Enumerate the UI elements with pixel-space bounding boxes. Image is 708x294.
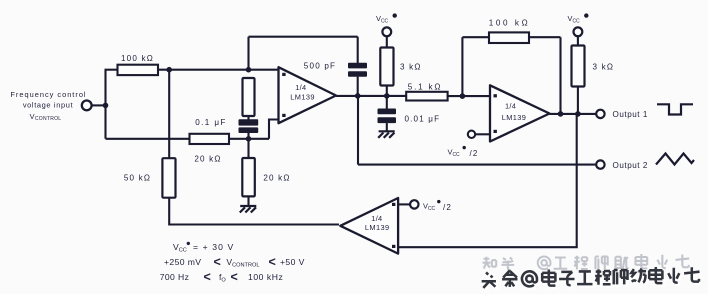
svg-text:500 pF: 500 pF xyxy=(304,62,336,71)
wire step up to U1 lower input xyxy=(269,120,279,139)
op-amp U3 1/4 LM139 xyxy=(340,198,398,254)
resistor 20 k (horizontal) xyxy=(190,134,230,144)
square wave icon xyxy=(657,104,693,114)
svg-text:20 kΩ: 20 kΩ xyxy=(194,155,221,164)
note 700Hz to 100kHz xyxy=(160,270,284,284)
junction node C xyxy=(246,67,252,73)
wire 5.1k to U2 xyxy=(448,95,490,97)
svg-text:LM139: LM139 xyxy=(365,223,390,232)
svg-text:+50 V: +50 V xyxy=(280,257,305,267)
wire feedback top xyxy=(249,36,358,38)
resistor vertical (ramp) xyxy=(243,78,255,116)
ground (below 20k) xyxy=(240,206,256,213)
svg-text:5.1 kΩ: 5.1 kΩ xyxy=(408,83,442,92)
wire feedback right drop xyxy=(357,37,359,64)
svg-text:Output 1: Output 1 xyxy=(613,110,648,119)
svg-text:= + 30 V: = + 30 V xyxy=(193,242,234,252)
junction output1 pullup node xyxy=(575,111,581,117)
svg-text:1/4: 1/4 xyxy=(295,83,306,92)
terminal output 2 xyxy=(596,160,604,168)
svg-text:3 kΩ: 3 kΩ xyxy=(593,63,615,72)
note 250mV to 50V xyxy=(164,255,305,269)
wire 3k to output wire xyxy=(386,86,388,96)
wire bottom input loop xyxy=(106,138,190,140)
wire output2 drop xyxy=(357,96,359,165)
wire node B down to 50k xyxy=(168,70,170,159)
wire left vertical xyxy=(104,70,106,139)
junction U2 feedback node xyxy=(460,93,466,99)
terminal Vcc (U1 pull-up) xyxy=(376,13,397,36)
wire U2 feedback top right xyxy=(529,36,561,38)
wire node to 0.01uF xyxy=(386,96,388,109)
wire square loop vertical xyxy=(576,114,578,247)
svg-text:Output 2: Output 2 xyxy=(613,161,648,170)
resistor 5.1 k xyxy=(406,92,447,101)
terminal Vcc (U2 pull-up) xyxy=(568,13,589,36)
terminal Vcc/2 (U2) xyxy=(448,131,479,159)
wire top left to R 100k xyxy=(105,69,119,71)
wire 20k to step xyxy=(229,138,269,140)
note Vcc = +30V xyxy=(173,242,234,254)
svg-text:<: < xyxy=(214,255,221,269)
op-amp U2 1/4 LM139 xyxy=(490,85,550,141)
wire feedback left riser xyxy=(247,37,249,70)
svg-text:Frequency control: Frequency control xyxy=(10,90,86,99)
svg-text:3 kΩ: 3 kΩ xyxy=(400,63,422,72)
wire 3k U2 to output1 xyxy=(577,87,579,114)
watermark zhihu light gray xyxy=(482,254,689,270)
watermark toutiao white emboss xyxy=(484,269,702,290)
wire 500pF to output node xyxy=(357,77,359,96)
wire U3 plus input xyxy=(398,246,578,248)
wire cap to node xyxy=(247,133,249,139)
wire resistor to cap 0.1uF xyxy=(247,116,249,120)
svg-text:700 Hz: 700 Hz xyxy=(160,272,190,282)
svg-text:1/4: 1/4 xyxy=(371,214,382,223)
wire U2 output xyxy=(550,113,597,115)
capacitor 500 pF xyxy=(348,63,367,77)
junction output2 tap xyxy=(355,93,361,99)
svg-text:LM139: LM139 xyxy=(290,92,315,101)
resistor 100 k (U2 feedback) xyxy=(489,32,529,43)
svg-text:LM139: LM139 xyxy=(502,113,527,122)
wire U2 feedback left riser xyxy=(461,37,463,96)
resistor 3 k (U2 pull-up) xyxy=(572,46,585,87)
op-amp U1 1/4 LM139 xyxy=(279,67,337,123)
svg-text:20 kΩ: 20 kΩ xyxy=(263,174,290,183)
wire Vcc to 3k xyxy=(386,36,388,48)
wire U1 output xyxy=(336,95,406,97)
wire R 100k to op-amp U1 xyxy=(158,69,279,71)
wire U2 feedback right drop xyxy=(559,37,561,114)
wire output2 horizontal xyxy=(358,164,596,166)
svg-text:/2: /2 xyxy=(443,203,452,212)
svg-text:100 kΩ: 100 kΩ xyxy=(121,54,154,63)
resistor 100 k (input) xyxy=(118,65,159,75)
svg-text:<: < xyxy=(269,255,276,269)
svg-text:/2: /2 xyxy=(470,149,479,158)
resistor 20 k (vertical) xyxy=(242,158,255,196)
ground (below 0.01uF) xyxy=(378,131,395,138)
wire Vcc to 3k (U2) xyxy=(577,36,579,46)
capacitor 0.01 uF xyxy=(378,109,397,124)
wire Vcc/2 to U2 plus input xyxy=(475,133,490,135)
svg-text:<: < xyxy=(204,270,211,284)
svg-text:0.1 μF: 0.1 μF xyxy=(195,118,227,127)
wire 50k to U3 output xyxy=(169,198,339,225)
wire 20k to ground xyxy=(247,196,249,206)
junction U2 output feedback xyxy=(558,111,564,117)
junction pullup1 node xyxy=(384,93,390,99)
resistor 3 k (U1 pull-up) xyxy=(380,48,393,86)
svg-text:1/4: 1/4 xyxy=(505,102,516,111)
svg-text:0.01 μF: 0.01 μF xyxy=(405,115,441,124)
watermark toutiao dark xyxy=(482,267,700,288)
input terminal Vcontrol xyxy=(82,101,92,111)
wire U2 feedback top left xyxy=(462,36,489,38)
wire input to node xyxy=(91,104,105,106)
triangle wave icon xyxy=(656,154,694,165)
wire 0.01uF to ground xyxy=(386,123,388,131)
capacitor 0.1 uF xyxy=(239,119,259,133)
svg-text:voltage input: voltage input xyxy=(23,101,73,110)
junction input node xyxy=(103,103,109,109)
svg-text:100 kΩ: 100 kΩ xyxy=(489,19,530,28)
svg-text:100 kHz: 100 kHz xyxy=(248,272,283,282)
svg-text:+250 mV: +250 mV xyxy=(164,257,201,267)
terminal Vcc/2 (U3) xyxy=(410,200,452,212)
svg-text:50 kΩ: 50 kΩ xyxy=(124,174,151,183)
resistor 50 k xyxy=(162,158,175,198)
terminal output 1 xyxy=(596,110,604,118)
svg-text:<: < xyxy=(231,270,238,284)
wire U3 minus stub xyxy=(398,203,410,205)
junction capacitor node xyxy=(246,136,252,142)
junction node B xyxy=(166,67,172,73)
wire node down to 20k vertical xyxy=(247,139,249,158)
label frequency control voltage input Vcontrol xyxy=(10,90,86,122)
